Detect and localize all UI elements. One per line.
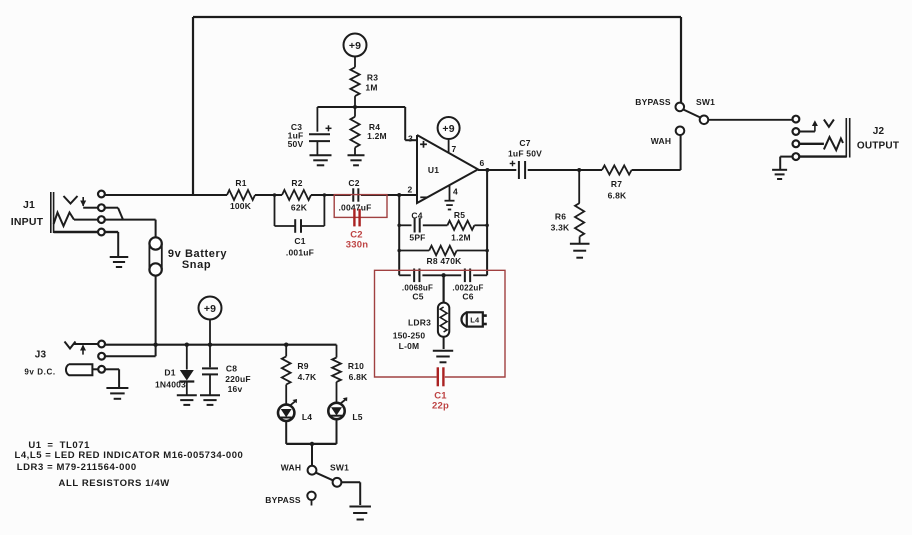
svg-text:OUTPUT: OUTPUT	[857, 141, 899, 152]
svg-text:LDR3 = M79-211564-000: LDR3 = M79-211564-000	[17, 462, 137, 473]
svg-text:L4,L5 = LED RED INDICATOR M16-: L4,L5 = LED RED INDICATOR M16-005734-000	[15, 450, 244, 461]
svg-text:SW1: SW1	[330, 463, 349, 473]
svg-text:1.2M: 1.2M	[367, 131, 387, 141]
svg-text:62K: 62K	[291, 203, 308, 213]
svg-text:3.3K: 3.3K	[551, 223, 570, 233]
svg-text:50V: 50V	[288, 139, 304, 149]
svg-text:22p: 22p	[432, 401, 449, 412]
svg-text:16v: 16v	[228, 384, 243, 394]
svg-text:4: 4	[453, 187, 458, 197]
svg-text:WAH: WAH	[651, 136, 671, 146]
svg-text:R6: R6	[555, 212, 566, 222]
svg-text:SW1: SW1	[696, 97, 715, 107]
svg-text:R1: R1	[235, 178, 246, 188]
svg-text:ALL RESISTORS 1/4W: ALL RESISTORS 1/4W	[59, 478, 170, 489]
svg-text:L-0M: L-0M	[399, 341, 420, 351]
svg-text:+9: +9	[442, 123, 454, 135]
svg-text:9v D.C.: 9v D.C.	[24, 368, 55, 377]
svg-text:R7: R7	[611, 179, 622, 189]
svg-text:5PF: 5PF	[409, 233, 425, 243]
svg-text:1uF 50V: 1uF 50V	[508, 149, 542, 159]
svg-text:WAH: WAH	[281, 463, 301, 473]
svg-text:L4: L4	[470, 316, 480, 325]
svg-text:BYPASS: BYPASS	[635, 97, 671, 107]
svg-text:C5: C5	[412, 292, 423, 302]
svg-text:R5: R5	[454, 210, 465, 220]
svg-text:4.7K: 4.7K	[298, 372, 317, 382]
svg-text:L5: L5	[352, 412, 362, 422]
svg-text:Snap: Snap	[182, 259, 211, 271]
svg-text:R8 470K: R8 470K	[427, 256, 463, 266]
svg-text:+9: +9	[204, 303, 216, 315]
svg-text:3: 3	[408, 134, 413, 144]
svg-text:6: 6	[480, 158, 485, 168]
svg-text:1M: 1M	[365, 83, 377, 93]
svg-text:1.2M: 1.2M	[451, 233, 471, 243]
svg-text:C2: C2	[348, 178, 359, 188]
svg-text:C8: C8	[226, 364, 237, 374]
svg-text:U1: U1	[428, 165, 439, 175]
svg-text:D1: D1	[164, 368, 175, 378]
svg-text:220uF: 220uF	[225, 374, 251, 384]
svg-text:J2: J2	[873, 126, 885, 137]
svg-text:.001uF: .001uF	[286, 248, 314, 258]
svg-text:J3: J3	[35, 350, 47, 361]
svg-text:INPUT: INPUT	[11, 216, 44, 228]
svg-text:100K: 100K	[230, 201, 252, 211]
svg-text:330n: 330n	[346, 240, 368, 251]
svg-text:2: 2	[408, 185, 413, 195]
svg-text:6.8K: 6.8K	[349, 372, 368, 382]
svg-text:7: 7	[452, 144, 457, 154]
svg-text:6.8K: 6.8K	[608, 191, 627, 201]
svg-text:C4: C4	[411, 210, 422, 220]
svg-text:R3: R3	[367, 73, 378, 83]
svg-text:1N4003: 1N4003	[155, 380, 186, 390]
svg-text:+9: +9	[349, 40, 361, 52]
svg-text:R9: R9	[297, 361, 308, 371]
svg-text:C7: C7	[519, 138, 530, 148]
svg-text:150-250: 150-250	[393, 331, 426, 341]
svg-text:C6: C6	[462, 292, 473, 302]
svg-text:LDR3: LDR3	[408, 318, 431, 328]
svg-text:BYPASS: BYPASS	[265, 495, 301, 505]
svg-text:R10: R10	[348, 361, 364, 371]
svg-text:C1: C1	[294, 236, 305, 246]
svg-text:L4: L4	[302, 412, 312, 422]
svg-text:R2: R2	[291, 178, 302, 188]
svg-text:J1: J1	[23, 199, 35, 211]
